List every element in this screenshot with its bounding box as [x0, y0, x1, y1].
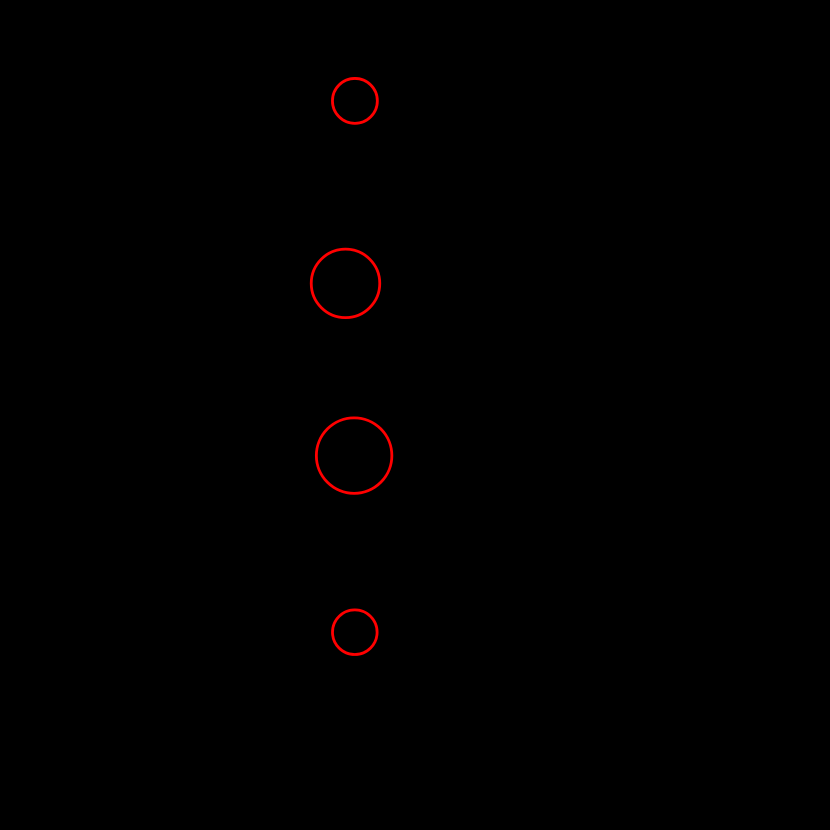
- node A (top highlight circle): [332, 78, 377, 123]
- node C (third highlight circle): [316, 418, 392, 494]
- node D (bottom highlight circle): [333, 610, 378, 655]
- node B (second highlight circle): [311, 249, 380, 318]
